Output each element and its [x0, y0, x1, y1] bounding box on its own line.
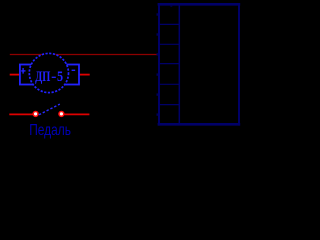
connector top edge notch — [170, 6, 172, 7]
wire right lead from motor minus — [79, 74, 90, 76]
wire switch right — [64, 113, 89, 115]
connector pin column divider — [178, 4, 180, 126]
connector pin cell divider 4 — [158, 83, 180, 85]
connector pin cell divider 5 — [158, 104, 180, 106]
switch contact right — [59, 112, 64, 117]
minus terminal mark — [72, 69, 76, 71]
connector pin cell divider 2 — [158, 43, 180, 45]
connector pin stub 5 — [157, 93, 159, 95]
connector X1 left edge — [158, 3, 160, 126]
connector pin stub 4 — [157, 73, 159, 75]
wire top supply line — [10, 54, 159, 56]
wire left lead to motor plus — [10, 74, 20, 76]
connector pin stub 6 — [157, 113, 159, 115]
svg-text:Педаль: Педаль — [29, 122, 71, 139]
connector pin cell divider 1 — [158, 23, 180, 25]
plus terminal mark — [21, 68, 25, 74]
connector X1 bottom edge — [158, 123, 241, 126]
motor brush block M1 — [20, 65, 79, 85]
connector pin stub 1 — [157, 13, 159, 15]
connector pin cell divider 3 — [158, 63, 180, 65]
connector X1 top edge — [158, 3, 241, 6]
connector pin stub 2 — [157, 33, 159, 35]
wire switch left — [9, 113, 33, 115]
label dash of ДП-5 — [52, 76, 56, 78]
connector pin stub 3 — [157, 53, 159, 55]
svg-text:ДП: ДП — [35, 69, 50, 85]
motor body circle ДП-5 — [29, 53, 68, 92]
connector X1 right edge — [238, 3, 240, 126]
svg-text:5: 5 — [57, 69, 63, 85]
switch blade (open, dashed) — [39, 104, 60, 115]
switch contact left — [33, 112, 38, 117]
